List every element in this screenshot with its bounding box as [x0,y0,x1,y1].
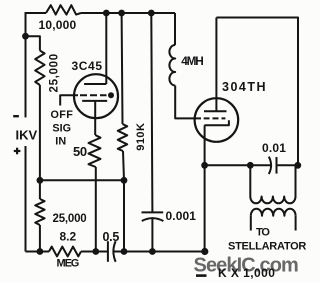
wire top rail to L1 [174,13,176,45]
svg-text:0.01: 0.01 [262,141,286,155]
tube V2 cathode lead down [204,125,206,251]
tube V1 plate lead [105,13,107,84]
battery 1KV plus [14,148,21,155]
wire R3 to bottom rail [39,225,41,252]
tube V2 plate bar [204,110,227,112]
capacitor 0.001 flat plate [142,211,164,213]
wire right loop [216,18,298,166]
transformer T1 primary right lead [295,165,297,196]
tube V2 plate lead [215,18,217,112]
svg-text:3C45: 3C45 [72,59,103,73]
svg-text:SIG: SIG [52,123,71,135]
wire output node to C3 [205,164,272,166]
tube V2 304TH envelope [195,98,239,142]
svg-text:304TH: 304TH [222,80,267,94]
wire rail B [40,179,124,181]
tube V1 cathode bar [82,100,107,102]
svg-text:TO: TO [256,227,270,239]
junction cathode line bottom [92,248,99,255]
resistor 8.2 MEG [49,247,81,257]
capacitor 0.5 flat plate [107,241,109,262]
junction bottom rail left [37,248,44,255]
resistor 50 [89,135,101,167]
junction 0.001 bottom [149,248,156,255]
junction transformer primary left [247,162,254,169]
wire bottom rail segment 1 [26,251,50,253]
wire C2 line upper [151,13,152,212]
svg-text:STELLARATOR: STELLARATOR [228,241,306,253]
junction node C [121,177,128,184]
junction top rail / V1 plate [103,10,110,17]
junction 910K bottom [121,248,128,255]
resistor 910K [118,124,127,151]
tube V2 grid dashes [204,117,226,119]
svg-text:OFF: OFF [51,109,74,121]
transformer T1 secondary right lead [295,216,297,231]
transformer T1 secondary winding [251,209,296,216]
wire 910K to node C [123,151,124,180]
resistor 10,000 [46,5,81,14]
wire C2 line lower [151,218,153,252]
caption minus sign [196,274,207,277]
wire top rail left segment [26,12,47,14]
wire 50 to bottom rail [95,167,97,252]
transformer T1 primary left lead [249,165,251,196]
junction right vertical / wire [294,162,301,169]
capacitor 0.5 curved plate [113,241,115,262]
inductor L1 4MH [169,45,175,86]
tube V2 cathode [204,120,229,125]
battery 1KV minus [13,115,19,117]
wire bottom rail segment 3 [114,251,205,253]
tube V1 3C45 envelope [74,74,118,118]
capacitor 0.001 curved plate [142,218,164,221]
svg-text:910K: 910K [135,123,147,151]
wire left rail upper [25,12,27,117]
capacitor 0.01 curved plate [269,157,271,174]
wire top rail right segment [81,12,175,14]
svg-text:IKV: IKV [16,128,38,143]
tube V1 cathode stem [94,101,96,135]
svg-text:MEG: MEG [57,257,79,269]
svg-text:4MH: 4MH [181,54,203,68]
wire R2 to node B [39,85,41,199]
junction bottom rail right end [201,248,208,255]
tube V1 plate bar [84,83,106,85]
junction top rail / C2 line [148,10,155,17]
svg-text:0.001: 0.001 [166,209,197,223]
wire branch to R2 [26,36,40,50]
resistor 25,000 lower [35,199,44,225]
wire C3 to right vertical [277,164,299,166]
wire node C to bottom rail [123,180,125,251]
svg-text:0.5: 0.5 [103,230,120,244]
junction node A [22,33,29,40]
wire left rail lower [25,146,27,252]
svg-text:IN: IN [55,135,66,147]
resistor 25,000 upper [35,51,44,85]
transformer T1 secondary left lead [250,216,252,231]
svg-text:25,000: 25,000 [53,213,87,225]
tube V1 grid dot [108,92,114,98]
tube V1 grid input lead [60,95,78,105]
junction cathode / output node [201,162,208,169]
capacitor 0.01 flat plate [276,157,278,174]
svg-text:25,000: 25,000 [49,53,61,92]
svg-text:10,000: 10,000 [39,18,77,32]
svg-text:50: 50 [73,144,87,159]
wire 910K from top rail [121,13,124,124]
transformer T1 primary winding [250,197,295,204]
wire L1 to V2 grid [175,86,201,119]
junction node B [37,177,44,184]
tube V1 grid dashes [80,94,107,96]
svg-text:8.2: 8.2 [60,230,77,244]
svg-text:K X 1,000: K X 1,000 [218,266,275,280]
wire bottom rail segment 2 [81,251,108,253]
junction top rail / 910K [118,10,125,17]
